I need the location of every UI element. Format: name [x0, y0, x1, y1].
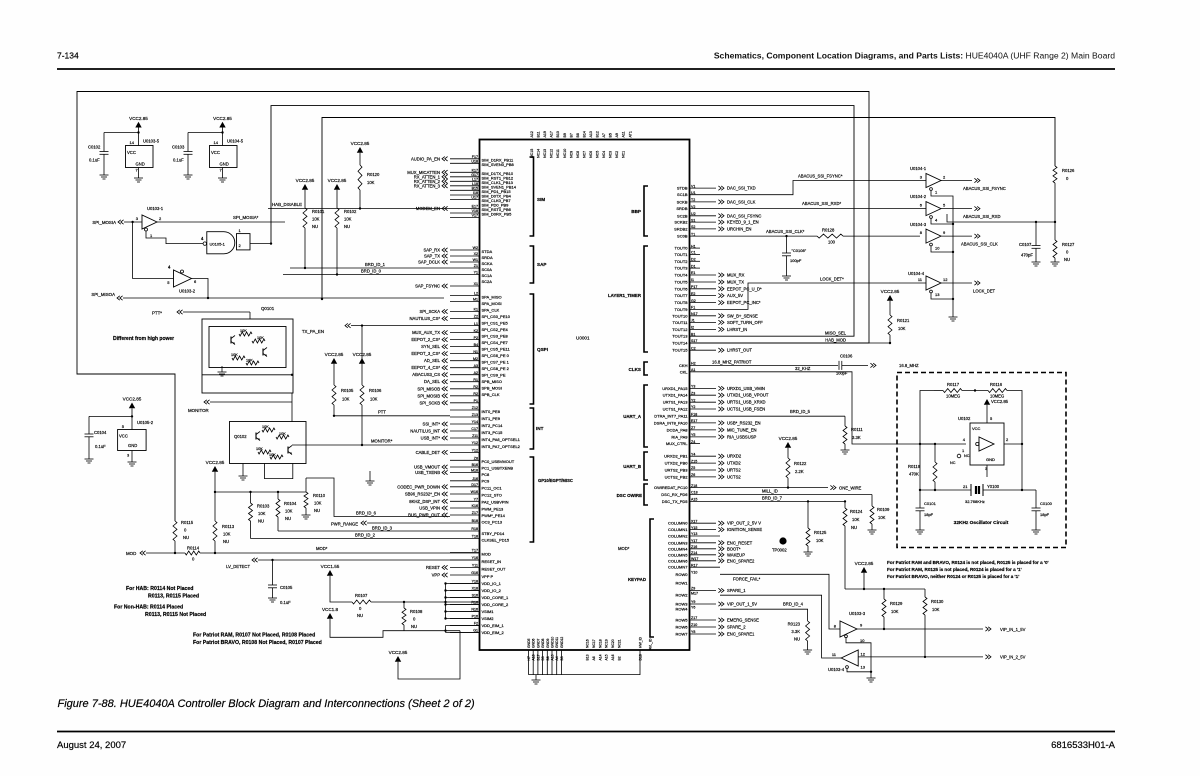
svg-text:D18: D18 [639, 654, 643, 660]
svg-text:EEPOT_PC_U_D*: EEPOT_PC_U_D* [727, 286, 762, 291]
svg-text:C2: C2 [691, 346, 696, 350]
svg-text:21: 21 [963, 484, 968, 489]
BBP group bracket [644, 186, 648, 236]
svg-text:BRD_ID_0: BRD_ID_0 [361, 269, 382, 274]
svg-text:HAB_MOD: HAB_MOD [825, 338, 846, 343]
pin row P2 EEPOT_2_CS* [411, 336, 479, 342]
svg-text:CLKSEL_PD15: CLKSEL_PD15 [482, 538, 510, 543]
resistor R0120 [358, 165, 362, 190]
svg-text:NC1: NC1 [622, 151, 626, 158]
pin row T18 stub [450, 535, 480, 539]
pin row M2 AD_SEL [424, 357, 480, 363]
pin row N16 stub [450, 608, 480, 612]
svg-text:ENC_SPARE1: ENC_SPARE1 [727, 632, 755, 637]
pin row X1 SAP_FSYNC [415, 282, 479, 288]
svg-text:8KHZ_DSP_INT: 8KHZ_DSP_INT [409, 499, 440, 504]
resistor R0121 [888, 315, 892, 335]
pin row Y2 URTS1_USB_XRXD [690, 398, 766, 404]
resistor R0101 [303, 208, 307, 228]
svg-text:SC2B: SC2B [677, 213, 688, 218]
svg-text:SPB_MISO: SPB_MISO [482, 379, 502, 384]
pin row A15 net [691, 498, 697, 502]
svg-text:LAYER1_TIMER: LAYER1_TIMER [608, 293, 642, 298]
svg-text:R0106: R0106 [369, 388, 382, 393]
svg-text:CABLE_DET: CABLE_DET [416, 450, 441, 455]
svg-text:PTT: PTT [378, 410, 386, 415]
svg-text:10K: 10K [898, 326, 906, 331]
svg-text:VDD_IO_1: VDD_IO_1 [482, 581, 502, 586]
resistor R0110 [304, 492, 308, 508]
svg-text:R0109: R0109 [877, 507, 890, 512]
svg-text:DAC_SSI_CLK: DAC_SSI_CLK [727, 199, 756, 204]
svg-text:VCC2.85: VCC2.85 [296, 178, 315, 183]
svg-text:10MEG: 10MEG [946, 394, 960, 399]
svg-text:DSC_TX_PD5: DSC_TX_PD5 [662, 499, 689, 504]
svg-text:NC13: NC13 [543, 149, 547, 158]
svg-text:NU: NU [183, 535, 189, 540]
resistor R0106 [360, 385, 364, 405]
svg-text:10K: 10K [852, 517, 860, 522]
svg-text:R18: R18 [471, 527, 478, 531]
svg-text:RIA_PA9: RIA_PA9 [671, 434, 688, 439]
svg-text:VDD_IO_2: VDD_IO_2 [482, 588, 502, 593]
svg-text:SPI_CS8_PE 2: SPI_CS8_PE 2 [482, 366, 510, 371]
svg-text:SIM_D0RX_PB5: SIM_D0RX_PB5 [482, 212, 513, 217]
wire ABACUS_SSI_CLK* route [690, 235, 818, 237]
svg-text:GND: GND [136, 162, 145, 167]
svg-text:MONITOR: MONITOR [188, 408, 209, 413]
svg-text:GND8: GND8 [541, 638, 545, 648]
svg-text:ROW5: ROW5 [676, 618, 689, 623]
svg-text:Y12: Y12 [472, 441, 478, 445]
svg-text:TOUT5: TOUT5 [674, 280, 688, 285]
svg-text:SPA_MISO: SPA_MISO [482, 295, 502, 300]
svg-text:10: 10 [860, 638, 865, 643]
svg-text:SPI_MISOB: SPI_MISOB [417, 386, 440, 391]
svg-text:NC17: NC17 [592, 639, 596, 648]
svg-text:QSPI: QSPI [537, 347, 548, 352]
svg-text:VCC: VCC [119, 434, 128, 439]
pin row Y8 ENC_SPARE1 [690, 630, 756, 636]
svg-text:VSIM2: VSIM2 [482, 616, 495, 621]
svg-text:R0101: R0101 [312, 209, 325, 214]
pin row X17 VIP_OUT_2_5V V [690, 519, 762, 525]
pin row Y10 net [691, 571, 697, 575]
svg-text:G17: G17 [471, 173, 478, 177]
svg-text:CLKS: CLKS [628, 367, 641, 372]
svg-text:10K: 10K [285, 509, 293, 514]
svg-text:B17: B17 [536, 654, 540, 660]
svg-text:100pF: 100pF [836, 371, 848, 376]
svg-text:PC1_USBTXENB: PC1_USBTXENB [482, 466, 514, 471]
wire ABACUS_SSI_CLK output [941, 235, 972, 237]
pin row S17 net [691, 339, 697, 343]
svg-text:STDB: STDB [677, 186, 688, 191]
svg-text:J16: J16 [472, 477, 478, 481]
svg-text:R0107: R0107 [355, 593, 368, 598]
pin row Z18 net [691, 484, 697, 488]
pin row K16 USB_VPIN [419, 504, 479, 510]
svg-text:Q0102: Q0102 [234, 434, 247, 439]
svg-text:SPI_CS9_PE: SPI_CS9_PE [482, 373, 506, 378]
svg-text:U0104-4: U0104-4 [908, 271, 925, 276]
pin row Z10 SPARE_2 [690, 623, 747, 629]
top pin number labels (rotated) [530, 131, 632, 137]
svg-text:T18: T18 [472, 535, 478, 539]
wire BRD_ID_1 [304, 228, 306, 268]
svg-text:10K: 10K [344, 217, 352, 222]
svg-text:U0001: U0001 [576, 336, 590, 341]
pin row P17 EEPOT_PC_U_D* [690, 285, 763, 291]
svg-text:R0105: R0105 [341, 388, 354, 393]
svg-text:WAKEUP: WAKEUP [727, 552, 745, 557]
svg-text:VCC2.85: VCC2.85 [213, 116, 232, 121]
svg-text:BRD_ID_1: BRD_ID_1 [365, 262, 386, 267]
pin row U18 stub [450, 160, 480, 164]
svg-text:MUX_RX: MUX_RX [727, 273, 745, 278]
svg-text:L1: L1 [474, 322, 478, 326]
pin row B4 SYN_SEL [421, 343, 479, 349]
svg-text:Z12: Z12 [472, 406, 478, 410]
svg-text:VCC2.85: VCC2.85 [351, 141, 370, 146]
svg-text:R0104: R0104 [284, 501, 297, 506]
svg-text:Y0100: Y0100 [987, 484, 1000, 489]
svg-text:EEPOT_4_CS*: EEPOT_4_CS* [411, 365, 440, 370]
svg-text:K17: K17 [472, 169, 478, 173]
svg-text:NU: NU [344, 224, 350, 229]
svg-text:SPA_MOSI: SPA_MOSI [482, 301, 502, 306]
svg-text:USB_VPIN: USB_VPIN [419, 506, 440, 511]
svg-text:LV_DETECT: LV_DETECT [226, 564, 250, 569]
svg-text:SRDB: SRDB [676, 206, 687, 211]
svg-text:INT5_PA7_OPTSEL2: INT5_PA7_OPTSEL2 [482, 444, 521, 449]
svg-text:TOUT6: TOUT6 [674, 286, 688, 291]
svg-text:LHRST_IN: LHRST_IN [727, 327, 747, 332]
svg-text:INT2_PC14: INT2_PC14 [482, 423, 504, 428]
pin row D2 net [690, 258, 701, 262]
resistor R0127 [1054, 222, 1056, 240]
svg-text:COLUMN7: COLUMN7 [668, 565, 688, 570]
svg-text:A13: A13 [589, 131, 593, 137]
svg-text:EEPOT_3_CS*: EEPOT_3_CS* [411, 351, 440, 356]
svg-text:UCTS1_PA12: UCTS1_PA12 [663, 407, 689, 412]
svg-text:R0108: R0108 [410, 609, 423, 614]
svg-text:A16: A16 [611, 654, 615, 660]
svg-text:R0127: R0127 [1062, 242, 1075, 247]
svg-text:V1: V1 [691, 184, 695, 188]
pin row C1 net [690, 251, 701, 255]
wire VCC rail to R0103/R0104/R0110 [215, 491, 306, 493]
wire op-amp feedback pins to ground [931, 190, 953, 317]
svg-text:BRD_ID_7: BRD_ID_7 [762, 496, 783, 501]
pin row U1 net [691, 191, 696, 195]
svg-text:ABACUS_SSI_CLK: ABACUS_SSI_CLK [961, 242, 998, 247]
svg-text:NC20: NC20 [611, 639, 615, 648]
svg-text:U0104-2: U0104-2 [910, 194, 927, 199]
svg-text:SW_B+_SENSE: SW_B+_SENSE [727, 313, 758, 318]
svg-text:KEYED_9_1_EN: KEYED_9_1_EN [727, 220, 759, 225]
wire U0103-3 pin10 and U0103-4 pin13 to ground [846, 638, 871, 672]
svg-text:G16: G16 [471, 571, 478, 575]
svg-text:SCKB: SCKB [677, 199, 688, 204]
oscillator feedback wires [920, 391, 934, 445]
svg-text:SPI_CS4_PE7: SPI_CS4_PE7 [482, 340, 509, 345]
svg-text:X2: X2 [474, 252, 478, 256]
svg-text:R0125: R0125 [814, 530, 827, 535]
svg-text:X1: X1 [474, 282, 478, 286]
svg-text:NAUTILUS_INT: NAUTILUS_INT [410, 429, 440, 434]
svg-text:10K: 10K [262, 425, 269, 429]
svg-text:VCC: VCC [972, 426, 981, 431]
svg-text:L18: L18 [472, 182, 478, 186]
resistor R0125 [807, 501, 809, 528]
pin row Y12 CABLE_DET [416, 449, 480, 455]
svg-text:VSIM1: VSIM1 [482, 609, 495, 614]
svg-text:P1: P1 [474, 399, 478, 403]
resistor R0129 [883, 589, 885, 599]
svg-text:RIA_USBSUSP: RIA_USBSUSP [727, 434, 757, 439]
svg-text:470pF: 470pF [1021, 253, 1033, 258]
svg-text:PC8: PC8 [482, 472, 491, 477]
power VCC2.85 for R0101 [302, 184, 308, 190]
svg-text:URXD1_PA15: URXD1_PA15 [662, 386, 688, 391]
svg-text:NU: NU [285, 516, 291, 521]
svg-text:C17: C17 [471, 427, 478, 431]
svg-text:VIP_IN_1_5V: VIP_IN_1_5V [1000, 627, 1026, 632]
svg-text:GND: GND [220, 162, 229, 167]
svg-text:CKL: CKL [680, 369, 689, 374]
svg-text:PC11_OC1: PC11_OC1 [482, 486, 503, 491]
svg-text:A17: A17 [550, 131, 554, 137]
pin row W2 SAP_RX [423, 246, 479, 252]
pin row I1 MUX_TX [690, 278, 745, 284]
svg-text:M18: M18 [471, 469, 478, 473]
svg-text:NC11: NC11 [556, 149, 560, 158]
svg-text:W1: W1 [473, 258, 478, 262]
svg-text:Figure 7-88. HUE4040A Controll: Figure 7-88. HUE4040A Controller Block D… [58, 698, 476, 710]
svg-text:AUX_5V: AUX_5V [727, 293, 743, 298]
svg-text:URTS2: URTS2 [727, 468, 741, 473]
svg-text:NC8: NC8 [576, 151, 580, 158]
svg-text:10K: 10K [246, 359, 253, 363]
pin row Z11 USB_INT* [421, 434, 480, 440]
svg-text:470K: 470K [909, 472, 919, 477]
svg-text:NC5: NC5 [596, 151, 600, 158]
svg-text:URXD2_PB1: URXD2_PB1 [664, 454, 688, 459]
pin row Z8 stub [450, 457, 480, 461]
svg-text:U0105-2: U0105-2 [137, 420, 154, 425]
pin row L2 stub [450, 292, 480, 296]
svg-text:MOD: MOD [126, 551, 136, 556]
resistor R0123 [806, 621, 810, 641]
svg-text:ABACUS_SSI_CLK*: ABACUS_SSI_CLK* [766, 229, 805, 234]
svg-text:NU: NU [312, 224, 318, 229]
svg-text:B8: B8 [576, 133, 580, 137]
svg-text:K1: K1 [474, 308, 478, 312]
svg-text:12: 12 [943, 277, 948, 282]
svg-text:PC0_USBVMOUT: PC0_USBVMOUT [482, 459, 515, 464]
svg-text:SC1B: SC1B [677, 192, 688, 197]
pin row K2 MUX_AUX_TX [412, 329, 479, 335]
svg-text:Z11: Z11 [472, 434, 478, 438]
svg-text:GND9: GND9 [546, 638, 550, 648]
wire U0105-1 output to MISO_SEL route [250, 243, 271, 245]
pin row G1 stub [450, 629, 480, 633]
capacitor C0107 [1035, 222, 1037, 246]
svg-text:R0123: R0123 [788, 622, 801, 627]
svg-text:VCC2.85: VCC2.85 [389, 650, 408, 655]
svg-text:R1: R1 [473, 378, 478, 382]
wire VIP_IN_1_5V [857, 628, 983, 630]
svg-text:TOUT3: TOUT3 [674, 266, 688, 271]
svg-text:C0107: C0107 [1019, 242, 1032, 247]
pin row V2 net [691, 205, 695, 209]
svg-text:VDD_EIM_1: VDD_EIM_1 [482, 623, 505, 628]
svg-text:SAP_FSYNC: SAP_FSYNC [415, 284, 440, 289]
svg-text:TOUT10: TOUT10 [672, 313, 688, 318]
svg-text:B8: B8 [546, 656, 550, 660]
svg-text:A15: A15 [605, 654, 609, 660]
svg-text:INT: INT [536, 426, 544, 431]
pin row Y5 RIA_USBSUSP [690, 433, 757, 439]
svg-text:BRD_ID_4: BRD_ID_4 [783, 602, 804, 607]
svg-text:OWIREDAT_PC10: OWIREDAT_PC10 [654, 485, 688, 490]
svg-text:DA_SEL: DA_SEL [424, 379, 441, 384]
pin row K1 SPI_SCKA [420, 308, 480, 314]
pin row Z2 NAUTILUS_CS* [410, 315, 480, 321]
resistor R0109 [871, 495, 873, 507]
svg-text:VDD_CORE_1: VDD_CORE_1 [482, 595, 509, 600]
svg-text:MISO_SEL: MISO_SEL [825, 331, 847, 336]
svg-text:COLUMN5: COLUMN5 [668, 552, 688, 557]
pin row R2 SPI_MOSIB [417, 392, 479, 398]
svg-text:32_KHZ: 32_KHZ [795, 366, 811, 371]
pin row S1 KEYED_9_1_EN [690, 218, 759, 224]
svg-text:VCC: VCC [211, 150, 220, 155]
svg-text:ROW6: ROW6 [676, 625, 689, 630]
DSC OWIRE group bracket [644, 484, 648, 505]
svg-text:100: 100 [828, 240, 836, 245]
resistor R0113 [213, 521, 217, 541]
svg-text:For Patriot RAM, R0125 is not: For Patriot RAM, R0125 is not placed, R0… [887, 567, 1022, 572]
KEYPAD group bracket [650, 519, 654, 637]
svg-text:10K: 10K [342, 397, 350, 402]
svg-text:B3: B3 [560, 656, 564, 660]
svg-text:18pF: 18pF [1040, 512, 1050, 517]
pin row Y3 URXD1_USB_VMIN [690, 385, 765, 391]
svg-text:U0102: U0102 [958, 416, 971, 421]
wire BRD_ID_6 [306, 478, 450, 517]
svg-text:NC21: NC21 [618, 639, 622, 648]
svg-text:HW_ID: HW_ID [639, 637, 643, 648]
supply pin block U0104-5 [210, 146, 238, 168]
pin row Y6 net [691, 605, 695, 609]
svg-text:GND7: GND7 [536, 638, 540, 648]
svg-text:E2: E2 [691, 292, 695, 296]
svg-text:10K: 10K [240, 329, 247, 333]
svg-text:U17: U17 [471, 196, 478, 200]
svg-text:A18: A18 [532, 654, 536, 660]
svg-text:SCKA: SCKA [482, 261, 493, 266]
pin row R18 stub [450, 527, 480, 531]
pin row L1 stub [450, 322, 480, 326]
pin row E17 USB*_RS232_EN [690, 419, 761, 425]
wire ROW0 to U0103-3 [720, 574, 840, 629]
svg-text:R0120: R0120 [367, 172, 380, 177]
svg-text:DSC OWIRE: DSC OWIRE [617, 493, 642, 498]
svg-text:2.2K: 2.2K [795, 469, 804, 474]
svg-text:BBP: BBP [631, 209, 641, 214]
svg-text:INT3_PC15: INT3_PC15 [482, 430, 504, 435]
svg-text:R0124: R0124 [850, 509, 863, 514]
resistor R0122 [786, 458, 790, 478]
svg-text:For Non-HAB: R0114 Placed: For Non-HAB: R0114 Placed [114, 605, 183, 611]
svg-text:SAP: SAP [537, 262, 546, 267]
pin row T1 net [691, 232, 695, 236]
svg-text:100pF: 100pF [790, 258, 802, 263]
resistor R0124 [843, 508, 847, 526]
SAP group bracket [530, 246, 534, 283]
svg-text:NC18: NC18 [598, 639, 602, 648]
svg-text:ROW1: ROW1 [676, 581, 689, 586]
pin row H1 net [690, 244, 701, 248]
svg-text:LOCK_DET*: LOCK_DET* [820, 277, 844, 282]
svg-text:ROW2: ROW2 [676, 593, 689, 598]
wire VDD pin stubs [444, 582, 479, 619]
svg-text:VDD_CORE_2: VDD_CORE_2 [482, 602, 509, 607]
svg-text:August 24, 2007: August 24, 2007 [57, 740, 126, 751]
svg-text:NC16: NC16 [586, 639, 590, 648]
svg-text:N1: N1 [473, 350, 478, 354]
wire LV_DETECT to RESET_IN [252, 558, 255, 562]
svg-text:10K: 10K [891, 609, 899, 614]
svg-text:NC10: NC10 [563, 149, 567, 158]
svg-text:AD_SEL: AD_SEL [424, 358, 441, 363]
capacitor C0108 [786, 236, 788, 253]
svg-text:TOUT15: TOUT15 [672, 348, 688, 353]
svg-text:ENC_SPARE2: ENC_SPARE2 [727, 558, 755, 563]
power VCC2.85 for R0122 [785, 442, 791, 448]
svg-text:TOUT11: TOUT11 [673, 320, 689, 325]
pin row L18 RX_ATTEN_3 [414, 182, 480, 188]
svg-text:C0102: C0102 [88, 145, 101, 150]
svg-text:BRD_ID_3: BRD_ID_3 [372, 526, 393, 531]
svg-text:"C0108": "C0108" [792, 248, 807, 253]
svg-text:ENC_RESET: ENC_RESET [727, 540, 753, 545]
svg-text:VPP: VPP [432, 573, 441, 578]
pin row V17 stub [450, 214, 480, 218]
svg-text:10K: 10K [257, 336, 264, 340]
svg-text:COLUMN6: COLUMN6 [668, 558, 688, 563]
wire U0103-1 pin1 to NAND input [146, 231, 203, 244]
svg-text:V17: V17 [472, 214, 478, 218]
svg-text:URTS2_PB3: URTS2_PB3 [665, 468, 689, 473]
pin row V18 stub [450, 209, 480, 213]
svg-text:TOUT14: TOUT14 [672, 341, 688, 346]
wire SPI_MOSIA* from U0103-1 to top route [157, 221, 285, 223]
svg-text:E17: E17 [472, 205, 478, 209]
pin row Y12 stub [450, 441, 480, 445]
svg-text:B9: B9 [563, 133, 567, 137]
svg-text:A7: A7 [602, 133, 606, 137]
svg-text:U0103-3: U0103-3 [849, 611, 866, 616]
pin row A3 EEPOT_4_CS* [411, 364, 479, 370]
svg-text:Y1: Y1 [474, 271, 478, 275]
wire BRD_ID_2 [250, 521, 252, 539]
svg-text:MUX_AUX_TX: MUX_AUX_TX [412, 330, 440, 335]
svg-text:16.8_MHZ_PATRIOT: 16.8_MHZ_PATRIOT [712, 360, 752, 365]
power VCC2.85 for R0102 [334, 184, 340, 190]
